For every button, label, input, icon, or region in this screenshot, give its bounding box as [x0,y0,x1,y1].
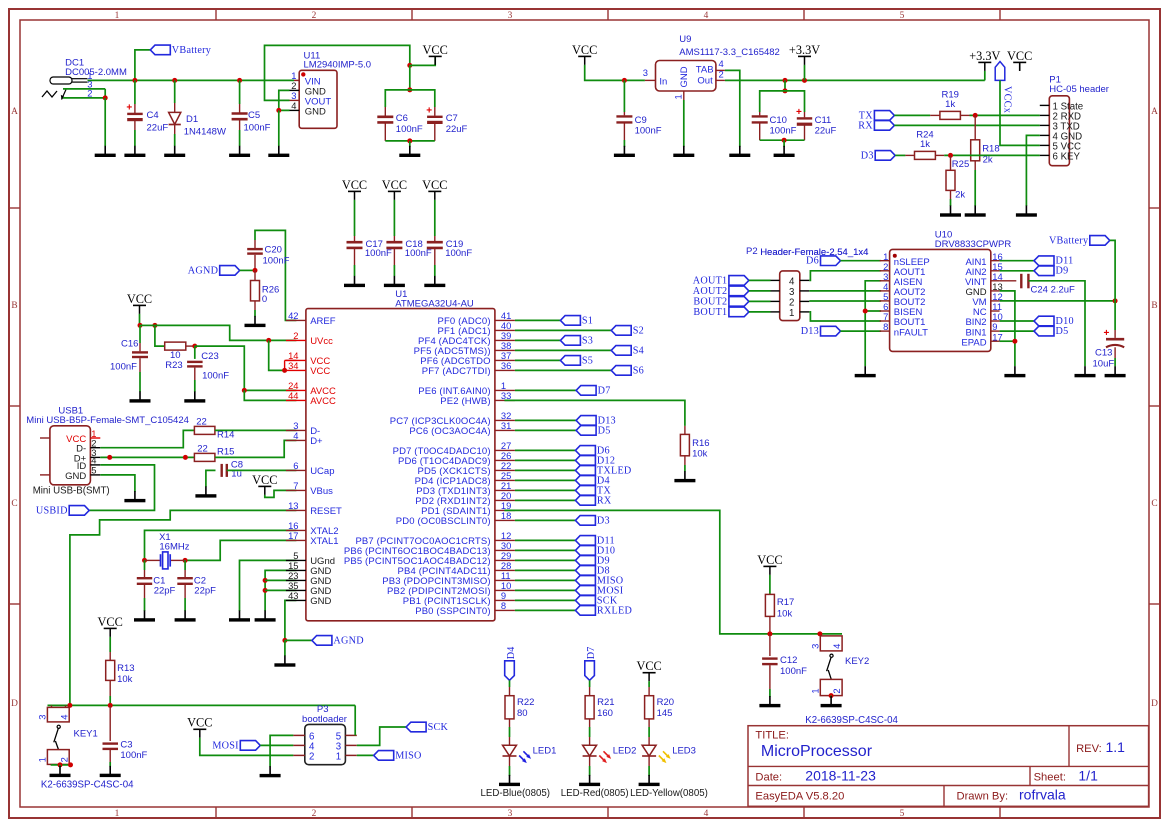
capacitor C9 100nF [616,116,632,122]
junction R19/R18 [973,113,978,118]
wire GND35 [265,589,296,591]
LED2 cathode stub [589,756,591,766]
svg-text:A: A [1151,107,1158,117]
ground C2 [175,610,196,621]
wire [974,115,976,139]
wire LED3 to ground [648,766,650,776]
junction VM/C13 [1113,298,1118,303]
svg-text:8: 8 [883,321,888,332]
svg-text:C24 2.2uF: C24 2.2uF [1031,284,1076,295]
svg-text:6: 6 [293,460,298,471]
svg-text:rofrvala: rofrvala [1019,786,1066,802]
svg-text:22uF: 22uF [446,124,468,135]
svg-text:VCC: VCC [422,178,447,192]
USB1 pin 3 D+ [90,456,100,458]
R16 bottom stub [684,456,686,465]
net flag RX (P1) [858,120,894,131]
wire DC1 pin3 [63,88,105,90]
svg-text:REV:: REV: [1076,743,1102,755]
wire U1 to D9 [515,559,576,561]
USB1 pin 2 D- [90,447,100,449]
net flag RXLED [575,605,632,616]
svg-text:VCC: VCC [572,43,597,57]
C20 top stub [254,240,256,248]
svg-text:100nF: 100nF [244,123,271,134]
C16 top stub [139,343,141,351]
svg-text:HC-05 header: HC-05 header [1049,84,1109,95]
wire [52,763,71,766]
svg-text:TITLE:: TITLE: [755,730,789,742]
wire [1000,330,1034,332]
wire [984,71,986,81]
P1 pin 4 [1040,134,1050,136]
svg-text:+: + [1104,328,1110,339]
wire [1000,291,1015,366]
IC body U1 ATMEGA32U4-AU [306,309,495,621]
capacitor C4 22uF [126,103,142,120]
C1 bottom stub [144,585,146,598]
capacitor C5 100nF [232,114,248,120]
svg-text:2: 2 [312,809,317,819]
svg-text:PF7 (ADC7TDI): PF7 (ADC7TDI) [422,366,491,377]
svg-text:bootloader: bootloader [302,714,347,725]
svg-text:2: 2 [312,11,317,21]
P1 pin 3 [1040,124,1050,126]
ground U9 TAB [729,146,750,157]
svg-text:22: 22 [196,417,207,428]
wire [255,230,296,320]
wire U1 to D4 [515,479,576,481]
resistor R24 [915,151,936,159]
svg-text:C4: C4 [147,110,159,121]
capacitor C10 100nF [752,116,768,122]
junction BISEN [863,309,868,314]
net flag D7 (PE6) [576,385,610,396]
wire [1028,281,1085,366]
svg-text:16MHz: 16MHz [159,541,189,552]
U9 GND stub [683,91,685,100]
net flag D5 (PC6) [576,425,610,436]
wire [1000,80,1040,145]
svg-text:0: 0 [262,294,267,305]
wire KEY2 to ground [830,696,832,697]
svg-text:D9: D9 [1056,266,1069,277]
svg-text:13: 13 [288,500,298,511]
wire [1000,260,1034,262]
svg-text:ATMEGA32U4-AU: ATMEGA32U4-AU [395,298,474,309]
svg-text:22pF: 22pF [154,586,176,597]
U1 pin 7 VBus [286,489,306,491]
wire to ground [783,140,785,147]
net flag D3 (P1) [861,150,895,161]
svg-text:P2: P2 [746,246,758,257]
junction GND35 [263,588,268,593]
svg-text:DRV8833CPWPR: DRV8833CPWPR [935,239,1012,250]
svg-text:VBattery: VBattery [1049,235,1089,246]
svg-text:SCK: SCK [428,722,449,733]
svg-text:18: 18 [501,510,511,521]
capacitor C6 100nF [377,117,393,123]
svg-text:VBattery: VBattery [172,45,212,56]
R17 bottom stub [769,616,771,634]
C9 bottom stub [623,124,625,141]
U11 VIN pin stub [294,79,299,81]
svg-text:+: + [796,107,802,118]
C3 bottom stub [109,750,111,762]
U10 pin 8 nFAULT [880,330,890,332]
wire DC1 pin3 to pin2 [104,89,106,98]
svg-text:AGND: AGND [333,635,363,646]
junction RESET/KEY1 [67,703,72,708]
svg-text:GND: GND [305,106,326,117]
junction X1 right [183,558,188,563]
junction X1 left [142,558,147,563]
junction R23/C23 [192,344,197,349]
svg-text:10uF: 10uF [1093,359,1115,370]
wire to C6 [385,90,410,107]
svg-text:R16: R16 [692,438,709,449]
U1 pin 12 PB7 (PCINT7OC0AOC1CRTS) [495,539,515,541]
U1 pin 21 PD3 (TXD1INT3) [495,489,515,491]
U1 pin 26 PD6 (T1OC4DADC9) [495,459,515,461]
ground R16 [674,471,695,482]
wire C13 to ground [1114,358,1116,366]
wire [240,560,297,611]
svg-text:2: 2 [58,757,69,762]
wire C9 to ground [623,140,625,147]
svg-text:D5: D5 [1056,326,1069,337]
ground C6/C7 [399,146,420,157]
U1 pin 28 PB4 (PCINT4ADC11) [495,569,515,571]
svg-text:C16: C16 [121,338,138,349]
C9 top stub [623,112,625,115]
U1 pin 6 UCap [286,469,306,471]
svg-text:B: B [1151,301,1157,311]
net flag D7 (LED2) [585,646,597,680]
wire U1 to MISO [515,579,576,581]
net flag D4 (PD4) [575,475,609,486]
wire AGND to ground [284,640,286,656]
wire R16 to ground [684,465,686,472]
ground C8 [195,486,216,497]
junction C10/C11 top [783,88,788,93]
svg-text:LED3: LED3 [672,746,696,757]
resistor R23 [165,342,186,350]
R25 bottom stub [950,190,952,199]
wire U1 to S6 [515,369,611,371]
capacitor C24 2.2uF [1021,274,1028,289]
wire C10/C11 bottoms [760,139,805,141]
ground LED2 [579,775,600,786]
wire U1 to S5 [515,359,561,361]
wire to C7 [410,90,435,107]
wire R20 to LED3 [648,727,650,737]
wire [357,727,406,745]
wire [1026,135,1039,206]
svg-text:100nF: 100nF [120,750,147,761]
R16 top stub [684,426,686,435]
svg-text:D3: D3 [597,515,610,526]
ground C12 [759,696,780,707]
svg-text:22uF: 22uF [147,123,169,134]
R24 left stub [905,154,914,156]
ground P3 [260,766,281,777]
R13 top stub [109,652,111,660]
P2 pin 4 [800,279,810,281]
wire [100,430,194,447]
svg-text:C: C [11,499,17,509]
svg-text:100nF: 100nF [445,248,472,259]
wire [784,80,786,91]
U1 pin 18 PD0 (OC0BSCLINT0) [495,519,515,521]
svg-text:1: 1 [115,809,120,819]
IC body P2 header [780,271,800,321]
svg-text:KEY1: KEY1 [74,729,98,740]
D1 cathode stub [174,125,176,135]
net flag RX (PD2) [575,495,612,506]
U9 In stub [645,79,656,81]
wire VCC down [139,314,141,326]
U10 pin 3 AISEN [880,280,890,282]
P1 pin 2 [1040,114,1050,116]
wire C17 to ground [354,265,356,276]
svg-text:VCC: VCC [423,43,448,57]
net flag AOUT2 [693,286,749,297]
ground C24 [1075,366,1096,377]
R20 top stub [648,687,650,696]
svg-text:3: 3 [809,644,820,649]
resistor R25 [946,170,955,190]
svg-text:100nF: 100nF [780,666,807,677]
junction C10/C11 [783,78,788,83]
wire U1 to TX [515,489,576,491]
svg-text:C20: C20 [265,245,282,256]
wire U1 to MOSI [515,589,576,591]
ground C13 [1105,366,1126,377]
wire [269,340,285,370]
ground D1 [164,146,185,157]
svg-text:Header-Female-2.54_1x4: Header-Female-2.54_1x4 [760,247,868,258]
net flag MOSI (PB2) [575,585,623,596]
R26 bottom stub [254,301,256,310]
U1 pin 35 GND [286,589,306,591]
svg-text:4: 4 [293,430,298,441]
wire [725,70,740,147]
crystal X1 16MHz [161,552,171,569]
svg-text:1/1: 1/1 [1078,767,1098,783]
power flag VCC (C19) [422,178,447,200]
junction AGND2 [282,638,287,643]
P3 pin 5 stub [345,734,356,736]
wire [895,154,905,156]
svg-text:EPAD: EPAD [961,337,986,348]
svg-text:Mini USB-B5P-Female-SMT_C10542: Mini USB-B5P-Female-SMT_C105424 [26,415,189,426]
wire [265,490,297,497]
svg-text:D13: D13 [801,326,819,337]
svg-text:C6: C6 [396,113,408,124]
svg-text:5: 5 [91,465,96,476]
wire AOUT1 to P2 [749,279,771,281]
ground U11 [268,146,289,157]
push button KEY2 [820,636,842,696]
junction C6/C7 top [407,87,412,92]
wire to VCC flag [410,57,435,65]
C1 top stub [144,570,146,577]
svg-text:C10: C10 [770,115,787,126]
wire to C11 [785,91,805,112]
svg-text:C13: C13 [1095,348,1112,359]
wire C19 to ground [434,265,436,276]
resistor R14 [194,426,215,434]
wire U1 to S3 [515,339,561,341]
IC body P3 bootloader [305,724,346,764]
resistor R18 [971,140,980,161]
wire EPAD [1000,340,1015,342]
USB1 pin 4 ID [90,464,100,466]
resistor R21 [585,696,594,719]
R20 bottom stub [648,719,650,727]
wire to ground [409,141,411,147]
wire [357,754,374,756]
net flag MISO (PB3) [575,575,623,586]
wire [354,705,356,735]
svg-text:VCC: VCC [310,366,330,377]
net flag D12 [575,455,615,466]
wire VCC to R20 [648,681,650,687]
svg-text:VCC: VCC [187,716,212,730]
junction D+ b [183,455,188,460]
junction EPAD [1012,339,1017,344]
svg-text:3: 3 [37,715,48,720]
net flag BOUT2 [693,296,749,307]
svg-text:VCC: VCC [342,178,367,192]
svg-text:1: 1 [336,752,341,763]
U1 pin 44 AVCC [286,399,306,401]
wire rail to C5 [239,80,241,104]
power flag VCC (C17) [342,178,367,200]
U1 pin 4 D+ [286,439,306,441]
capacitor C13 10uF [1104,328,1125,347]
capacitor C3 100nF [103,744,119,749]
svg-text:2: 2 [293,330,298,341]
C17 bottom stub [354,249,356,265]
C4 top pin stub [134,104,136,113]
wire [206,470,216,487]
svg-text:In: In [659,76,667,87]
U1 pin 16 XTAL2 [286,529,306,531]
wire U1 to D11 [515,539,576,541]
U11 pin4 stub [290,109,300,111]
svg-text:22pF: 22pF [194,586,216,597]
wire C5 to ground [239,130,241,146]
net flag S6 [611,365,644,376]
ground U10 [1004,366,1025,377]
U1 pin 39 PF4 (ADC4TCK) [495,339,515,341]
svg-text:1: 1 [809,688,820,693]
wire U1 to D10 [515,549,576,551]
svg-text:VCCx: VCCx [1001,86,1012,113]
wire [809,312,881,321]
U1 pin 29 PB5 (PCINT5OC1AOC4BADC12) [495,559,515,561]
C6 bottom stub [384,124,386,141]
svg-text:3: 3 [508,809,513,819]
R22 bottom stub [509,719,511,727]
U1 pin 22 PD5 (XCK1CTS) [495,469,515,471]
wire BOUT1 to P2 [749,311,771,313]
power flag VCC (R13) [98,615,123,637]
junction C4/VBattery [132,78,137,83]
net flag D9 (U10) [1034,266,1068,277]
net flag TXLED [575,465,631,476]
wire [194,346,196,359]
svg-text:4: 4 [719,58,724,69]
U1 pin 8 PB0 (SSPCINT0) [495,609,515,611]
wire U1 to S4 [515,349,611,351]
resistor R20 [645,696,654,719]
wire U1 to D7 [515,389,576,391]
net flag SCK (P3) [406,722,448,733]
svg-text:7: 7 [293,480,298,491]
U1 pin 27 PD7 (T0OC4DADC10) [495,449,515,451]
wire U1 to TXLED [515,469,576,471]
wire R19 to P1 RXD [970,114,1040,116]
wire DC1 pin1 to U11 VIN rail [88,79,295,81]
svg-text:100nF: 100nF [202,371,229,382]
svg-text:22: 22 [197,443,208,454]
svg-text:S2: S2 [633,325,644,336]
junction KEY1 gnd a [58,762,63,767]
svg-text:LED-Red(0805): LED-Red(0805) [561,788,629,799]
P3 pin 4 stub [293,744,304,746]
svg-text:A: A [11,107,18,117]
svg-text:6 KEY: 6 KEY [1053,152,1081,163]
capacitor C2 22pF [177,578,193,584]
C5 top stub [239,104,241,113]
U1 pin 31 PC6 (OC3AOC4A) [495,429,515,431]
svg-text:U9: U9 [679,34,691,45]
wire U11 GND down [278,110,280,146]
ground USB1 [124,491,145,502]
svg-text:PE2 (HWB): PE2 (HWB) [440,396,490,407]
svg-text:100nF: 100nF [110,361,137,372]
net flag BOUT1 [693,307,749,318]
capacitor C7 22uF [426,106,442,123]
capacitor C19 100nF [427,242,443,248]
wire MOSI to P3 pin4 [260,744,293,746]
svg-text:GND: GND [679,66,690,87]
wire VCC node [140,324,155,326]
wire [145,530,297,560]
U1 pin 11 PB3 (PDOPCINT3MISO) [495,579,515,581]
junction C5 [237,78,242,83]
svg-text:VCC: VCC [1007,49,1032,63]
U10 pin 15 AIN2 [991,270,1000,272]
svg-text:VCC: VCC [127,292,152,306]
ground C17 [344,276,365,287]
svg-text:LED2: LED2 [613,746,637,757]
junction C6/C7 bottom [407,138,412,143]
wire [1000,300,1116,302]
wire D1 to ground [174,134,176,146]
svg-text:100nF: 100nF [396,124,423,135]
resistor R17 [765,594,774,616]
svg-text:AVCC: AVCC [310,396,336,407]
svg-text:D: D [1151,699,1158,709]
LED LED1 [503,745,532,763]
power flag +3.3V (U9) [789,43,820,65]
net flag USBID [36,505,89,516]
C17 top stub [354,236,356,241]
